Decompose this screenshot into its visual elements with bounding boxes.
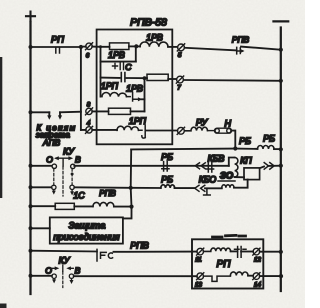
terminal 7 xyxy=(176,76,183,83)
svg-text:РБ: РБ xyxy=(263,134,275,144)
node junction RB row xyxy=(233,146,237,150)
node junction at x80.9 row1 xyxy=(79,45,83,49)
device rect right of KP xyxy=(244,168,260,180)
svg-text:РПВ-58: РПВ-58 xyxy=(130,17,167,29)
coil 1RP row4 xyxy=(117,126,139,130)
resistor 1S xyxy=(55,203,74,209)
wire RB coil to arrows xyxy=(175,187,195,189)
svg-text:О: О xyxy=(45,266,52,276)
svg-text:1РП: 1РП xyxy=(101,81,119,91)
wire vertical C xyxy=(144,78,146,111)
wire contact to vertical C xyxy=(142,98,145,100)
right bus wire xyxy=(280,28,282,292)
node left bus rowA xyxy=(29,249,33,253)
node junction x144.5 row7 xyxy=(143,76,147,80)
wire vertical B x135.8 xyxy=(135,46,137,61)
switch KU lower contact V row187 xyxy=(70,185,74,189)
wire vertical terminals feeder xyxy=(80,47,82,130)
switch KU moving arrows down xyxy=(53,190,55,192)
node junction x100.5 row1 xyxy=(99,45,102,48)
wire resistor to terminal 7 xyxy=(168,78,176,80)
svg-text:РПВ: РПВ xyxy=(232,35,250,45)
coil RB row187 xyxy=(161,185,175,188)
node left bus row166 xyxy=(29,164,33,168)
svg-text:КБВ: КБВ xyxy=(208,154,225,164)
svg-text:С: С xyxy=(125,62,132,72)
switch KU lower contact O row187 xyxy=(52,185,56,189)
svg-text:О: О xyxy=(46,155,53,165)
terminal 14 xyxy=(253,273,260,280)
svg-text:КБО: КБО xyxy=(199,175,217,185)
wire rowA left xyxy=(31,250,97,253)
connector arrows right xyxy=(264,163,274,170)
coil 1RV xyxy=(140,42,168,47)
contact bracket row13 xyxy=(204,276,231,281)
switch KU lower contact V xyxy=(69,274,73,278)
wire vertical A x100.5 xyxy=(100,47,102,78)
device box RP xyxy=(192,239,263,288)
wire terminal8 to resistor xyxy=(92,110,108,112)
wire row7 inside box xyxy=(101,77,148,80)
contact RPV bottom xyxy=(97,249,106,261)
contact KBV xyxy=(207,163,214,172)
svg-text:РБ: РБ xyxy=(161,152,173,162)
node dot on dashed link xyxy=(71,173,74,176)
svg-text:РБ: РБ xyxy=(239,136,251,146)
contact KBO xyxy=(204,188,211,195)
wire coil RPV to junction xyxy=(114,206,132,208)
svg-text:1РП: 1РП xyxy=(129,116,147,126)
svg-text:КУ: КУ xyxy=(63,147,75,157)
switch KU dashed links upper xyxy=(53,169,55,187)
node left bus APV row xyxy=(29,110,33,114)
svg-text:13: 13 xyxy=(195,282,202,289)
wire RB row xyxy=(131,148,257,151)
wire loop y61.5 xyxy=(101,61,136,63)
wire row166 left xyxy=(31,165,52,167)
connector arrows row187 xyxy=(195,185,205,191)
terminal 4 xyxy=(86,126,93,133)
wire ZO to corner up xyxy=(234,180,248,188)
terminal 13 xyxy=(197,273,204,280)
coil RU xyxy=(185,127,208,131)
switch KU lower moving arrows down xyxy=(53,279,55,280)
wire bus to Zashchita box xyxy=(31,227,50,229)
wire terminal7 to right bus xyxy=(184,79,281,82)
switch KU upper arrows xyxy=(56,158,70,166)
svg-text:РПВ: РПВ xyxy=(130,241,149,251)
wire to ZO coil xyxy=(205,187,222,189)
node left bus zashchita xyxy=(29,226,33,230)
plus supply symbol xyxy=(26,12,35,22)
node: left bus row1 junction xyxy=(29,45,33,49)
scan artifact: smudge above RP box xyxy=(213,235,246,237)
switch KU upper contact O xyxy=(52,164,56,168)
svg-text:В: В xyxy=(75,266,81,276)
node junction x130.7 row187 xyxy=(129,186,133,190)
capacitor C polarity decor xyxy=(113,63,124,70)
terminal row4 right xyxy=(177,127,184,134)
switch KU lower dashed link xyxy=(62,272,64,288)
svg-text:12: 12 xyxy=(254,257,261,264)
device box Zashchita xyxy=(50,217,123,243)
node right bus row166 xyxy=(279,164,283,168)
resistor row7 xyxy=(147,74,168,80)
coil ZO xyxy=(222,185,234,188)
wire coil to terminal 14 xyxy=(248,275,253,277)
contact 1RV slip xyxy=(127,93,140,101)
coil RP top xyxy=(204,248,231,251)
svg-text:5: 5 xyxy=(178,52,182,59)
wire vertical x131 xyxy=(123,149,132,218)
capacitor RP xyxy=(235,247,247,258)
wire terminal12 to bus xyxy=(260,251,281,253)
coil RP bottom xyxy=(230,272,248,276)
svg-text:1С: 1С xyxy=(73,191,85,201)
scan artifact: left edge black strip xyxy=(0,57,2,198)
terminal 5 xyxy=(177,44,184,51)
node right bus row276 xyxy=(279,274,283,278)
svg-text:4: 4 xyxy=(87,120,91,127)
svg-text:7: 7 xyxy=(177,85,181,92)
resistor row8 xyxy=(109,108,131,114)
wire coil to cap RP xyxy=(231,250,238,252)
switch KU lower arrows xyxy=(52,265,73,271)
svg-text:8: 8 xyxy=(87,102,91,109)
wire N to corner down xyxy=(232,131,236,149)
wire row206 left xyxy=(31,205,56,207)
svg-text:14: 14 xyxy=(254,282,261,289)
svg-text:КУ: КУ xyxy=(59,256,71,266)
contact RP xyxy=(56,47,60,53)
wire row4 to right terminal xyxy=(146,130,177,132)
wire cap to terminal 12 xyxy=(241,251,253,253)
svg-text:присоединения: присоединения xyxy=(53,232,119,242)
svg-text:В: В xyxy=(75,155,81,165)
wire rowA to terminal 11 xyxy=(114,251,197,253)
terminal 6 xyxy=(86,43,93,50)
wire RPV contact to right bus xyxy=(241,47,281,50)
terminal 8 xyxy=(86,108,93,115)
svg-text:Н: Н xyxy=(225,118,232,128)
arrow to APV circuits 1 xyxy=(48,112,50,116)
node right bus RB row xyxy=(279,147,283,151)
wire rect to arrows to bus xyxy=(260,166,281,169)
device box RPV-58 xyxy=(97,30,173,145)
wire RB coil to bus xyxy=(274,148,281,150)
svg-text:КП: КП xyxy=(240,156,252,166)
wire row1 left xyxy=(31,46,81,48)
svg-text:11: 11 xyxy=(195,257,201,264)
wire terminal4 stub xyxy=(81,129,117,131)
node right bus row7 xyxy=(279,79,283,83)
wire row276 to terminal 13 xyxy=(74,275,197,277)
coil 1RP xyxy=(102,92,127,96)
coil RPV xyxy=(93,202,114,206)
wire vertical A lower xyxy=(100,78,102,97)
coil RB right xyxy=(258,146,275,150)
contact RB row166 xyxy=(162,162,169,171)
svg-text:РУ: РУ xyxy=(196,118,209,128)
wire row166 middle xyxy=(74,165,229,167)
contact RPV (impulse) xyxy=(237,47,243,54)
wire row187 middle xyxy=(74,186,161,189)
arrow to APV circuits 2 xyxy=(59,112,61,116)
svg-text:6: 6 xyxy=(86,53,90,60)
svg-text:РБ: РБ xyxy=(161,175,173,185)
node right bus row251 xyxy=(279,250,283,254)
label ZO underline xyxy=(218,180,235,182)
svg-text:ЗО: ЗО xyxy=(220,171,234,182)
svg-text:РПВ: РПВ xyxy=(99,189,116,198)
terminal 11 xyxy=(197,248,204,255)
wire terminal14 to bus xyxy=(260,275,281,277)
node left bus row206 xyxy=(29,204,33,208)
wire 1S to coil RPV xyxy=(74,205,93,207)
wire row1 to terminal 6 xyxy=(81,46,86,48)
node junction x136.5 row1 xyxy=(134,44,138,48)
svg-text:Защита: Защита xyxy=(69,221,106,231)
contact 1RP row4 xyxy=(139,125,146,138)
connector arrows row166 xyxy=(195,163,205,169)
svg-text:АПВ: АПВ xyxy=(42,138,61,147)
wire row276 left xyxy=(31,275,52,277)
indicator N xyxy=(208,128,232,133)
switch KU lower contact O xyxy=(52,274,56,278)
switch KU upper contact V xyxy=(71,164,75,168)
minus supply symbol xyxy=(274,20,289,22)
node right bus row1 xyxy=(279,48,283,52)
wire KP bottom to rect xyxy=(235,176,244,178)
node left bus row187 xyxy=(29,185,33,189)
svg-text:1РВ: 1РВ xyxy=(146,33,163,43)
wire APV arrows row xyxy=(31,111,81,114)
coil KP vertical xyxy=(235,158,238,178)
wire row187 left xyxy=(31,186,52,188)
svg-text:1РВ: 1РВ xyxy=(126,84,143,94)
svg-text:РП: РП xyxy=(51,35,64,45)
left bus wire xyxy=(29,22,31,294)
svg-text:РП: РП xyxy=(217,259,232,270)
scan artifact: bottom-left corner mark xyxy=(0,304,7,308)
terminal 12 xyxy=(253,248,260,255)
svg-text:1РВ: 1РВ xyxy=(108,50,125,60)
wire terminal6 to resistor xyxy=(92,46,109,48)
wire coil to terminal 5 xyxy=(168,46,177,48)
wire terminal5 to RPV contact xyxy=(185,48,237,51)
resistor 1RV xyxy=(110,43,129,50)
wire row166 step up to KP xyxy=(229,158,235,166)
node junction x131.5 row206 xyxy=(129,205,133,209)
wire resistor to coil xyxy=(129,45,140,47)
node left bus row276 xyxy=(29,274,33,278)
capacitor C xyxy=(121,73,125,82)
wire resistor row8 to vertical C xyxy=(131,110,145,112)
